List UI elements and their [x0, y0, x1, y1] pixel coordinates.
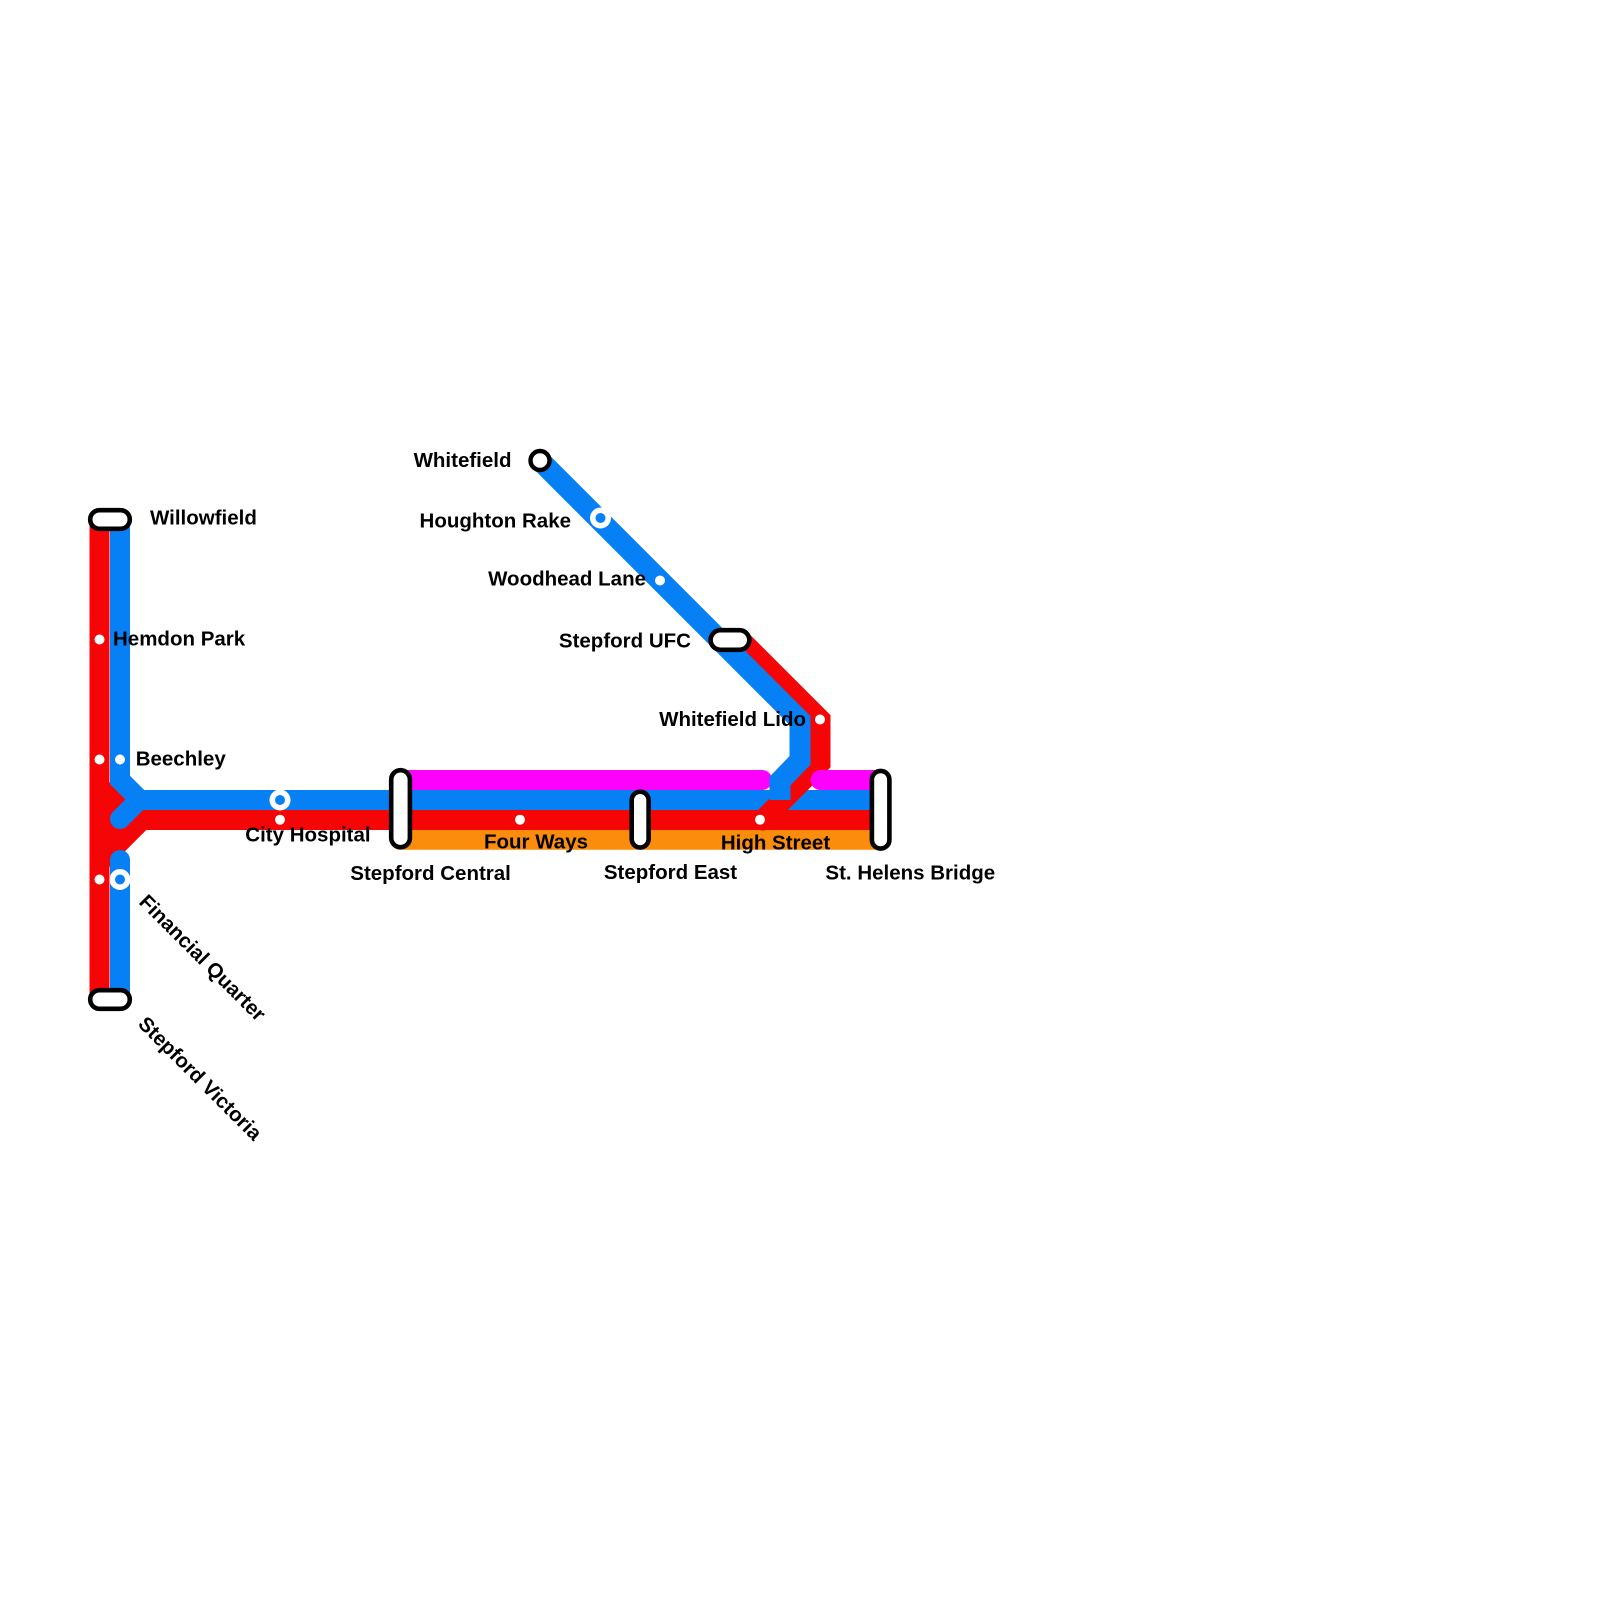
svg-text:Woodhead Lane: Woodhead Lane	[488, 568, 646, 591]
svg-text:Willowfield: Willowfield	[150, 507, 257, 530]
svg-text:Hemdon Park: Hemdon Park	[113, 628, 246, 651]
svg-text:Stepford Central: Stepford Central	[350, 862, 511, 885]
svg-text:St. Helens Bridge: St. Helens Bridge	[825, 862, 995, 885]
svg-text:Beechley: Beechley	[136, 747, 227, 770]
svg-text:Stepford UFC: Stepford UFC	[559, 630, 691, 653]
svg-text:Houghton Rake: Houghton Rake	[420, 510, 571, 533]
svg-text:Whitefield: Whitefield	[414, 449, 512, 472]
svg-text:City Hospital: City Hospital	[245, 824, 370, 847]
svg-text:Four Ways: Four Ways	[484, 830, 588, 853]
svg-text:High Street: High Street	[721, 832, 831, 855]
svg-text:Stepford East: Stepford East	[604, 861, 737, 884]
svg-text:Whitefield Lido: Whitefield Lido	[659, 708, 806, 731]
